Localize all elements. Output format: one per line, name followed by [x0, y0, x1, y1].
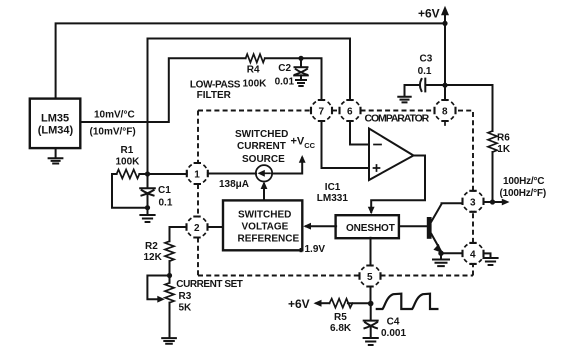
- svg-text:LM35: LM35: [41, 112, 69, 124]
- pin 8: [435, 100, 456, 121]
- svg-text:CURRENT SET: CURRENT SET: [176, 279, 243, 290]
- resistor R6: [488, 131, 497, 152]
- svg-text:1: 1: [194, 170, 200, 181]
- svg-text:CURRENT: CURRENT: [237, 141, 286, 152]
- ground for C1: [147, 208, 149, 215]
- svg-text:10mV/°C: 10mV/°C: [94, 110, 135, 121]
- svg-text:(100Hz/°F): (100Hz/°F): [500, 188, 546, 199]
- svg-text:12K: 12K: [144, 252, 163, 263]
- pin 5: [360, 266, 381, 287]
- ground for C3: [404, 85, 406, 96]
- wire pin2 to R2: [170, 227, 187, 241]
- +6V supply arrow top: [444, 10, 446, 23]
- transistor Q1: [427, 217, 432, 239]
- wire +6V rail to pin8 column: [444, 23, 446, 100]
- wire emitter to pin4: [441, 252, 463, 254]
- node output junction: [490, 199, 495, 204]
- svg-text:7: 7: [319, 107, 325, 118]
- op-amp comparator U1: [369, 129, 414, 181]
- wire oneshot to pin5: [370, 238, 372, 266]
- svg-text:R3: R3: [179, 291, 192, 302]
- svg-text:4: 4: [470, 249, 476, 260]
- svg-text:1.9V: 1.9V: [305, 244, 326, 255]
- ground for LM35: [55, 148, 57, 158]
- potentiometer R3: [165, 283, 174, 303]
- node C3 junction: [442, 83, 447, 88]
- svg-text:100K: 100K: [116, 157, 141, 168]
- wiper arm of R3: [147, 276, 169, 300]
- svg-text:ONESHOT: ONESHOT: [346, 223, 395, 234]
- pin 3: [463, 191, 484, 212]
- svg-text:8: 8: [442, 107, 448, 118]
- dashed IC boundary left edge: [197, 111, 199, 164]
- svg-text:R6: R6: [497, 132, 510, 143]
- wire pin1 to current source: [208, 173, 256, 175]
- dashed IC boundary bottom edge: [198, 275, 360, 277]
- wire node to pin1: [148, 173, 188, 175]
- svg-text:5: 5: [367, 272, 373, 283]
- ground for R3: [162, 338, 176, 344]
- wire pin3 to output arrow: [484, 201, 507, 203]
- ground for C2: [296, 80, 306, 86]
- oneshot box: [336, 215, 399, 238]
- wire +6V to R6: [445, 85, 493, 131]
- svg-text:0.001: 0.001: [381, 328, 406, 339]
- svg-text:138μA: 138μA: [219, 179, 249, 190]
- capacitor C3: [405, 84, 420, 86]
- wire comparator output to oneshot: [371, 156, 425, 213]
- switched voltage reference box U-ref: [223, 200, 302, 250]
- svg-text:R5: R5: [334, 312, 347, 323]
- current source I1: [256, 165, 272, 181]
- capacitor C2: [300, 58, 302, 66]
- svg-text:0.1: 0.1: [418, 66, 432, 77]
- svg-text:COMPARATOR: COMPARATOR: [365, 113, 430, 125]
- svg-text:LM331: LM331: [317, 193, 349, 204]
- node C2 junction: [298, 56, 303, 61]
- svg-text:SWITCHED: SWITCHED: [238, 210, 291, 221]
- wire top rail from LM35 to +6V: [56, 23, 445, 99]
- resistor R1: [112, 173, 117, 175]
- svg-text:(10mV/°F): (10mV/°F): [90, 127, 136, 138]
- svg-text:C3: C3: [420, 53, 433, 64]
- svg-text:5K: 5K: [179, 303, 193, 314]
- svg-text:6.8K: 6.8K: [330, 323, 352, 334]
- svg-text:0.1: 0.1: [159, 197, 173, 208]
- svg-text:+6V: +6V: [288, 297, 310, 311]
- node C1 bottom: [145, 205, 150, 210]
- wire current source to Vcc: [272, 158, 302, 174]
- wire pin6 to inverting input: [350, 121, 369, 145]
- capacitor C1: [147, 174, 149, 188]
- svg-text:R2: R2: [145, 241, 158, 252]
- svg-text:+6V: +6V: [418, 7, 440, 21]
- svg-text:100K: 100K: [243, 79, 268, 90]
- label 1.9V: [300, 248, 303, 252]
- ground for emitter: [440, 253, 442, 259]
- dashed IC boundary right edge: [472, 264, 474, 276]
- waveform at pin5: [376, 294, 439, 309]
- wire pin2 to voltage reference: [208, 226, 224, 228]
- svg-text:R4: R4: [247, 65, 260, 76]
- svg-text:VOLTAGE: VOLTAGE: [242, 222, 289, 233]
- wire pin5 to R5/C4 node: [370, 287, 372, 304]
- pin 4: [463, 243, 484, 264]
- pin 1: [187, 163, 208, 184]
- svg-text:LOW-PASS: LOW-PASS: [190, 80, 241, 91]
- dashed IC boundary top edge: [198, 110, 311, 112]
- svg-text:1K: 1K: [497, 144, 511, 155]
- svg-text:C2: C2: [278, 63, 291, 74]
- resistor R5: [348, 302, 368, 304]
- pin 2: [187, 217, 208, 238]
- wire pin6 feedback line: [148, 39, 351, 175]
- transistor Q1 base wire: [400, 225, 427, 227]
- wire reference to current source arrow: [263, 184, 265, 200]
- ground for pin4: [484, 253, 491, 257]
- node emitter junction: [438, 251, 443, 256]
- svg-text:C4: C4: [387, 316, 400, 327]
- pin 7: [311, 100, 332, 121]
- resistor R4: [246, 54, 265, 62]
- svg-text:3: 3: [470, 197, 476, 208]
- svg-text:SOURCE: SOURCE: [242, 154, 285, 165]
- svg-text:(LM34): (LM34): [38, 125, 74, 137]
- svg-text:SWITCHED: SWITCHED: [235, 129, 288, 140]
- node top rail junction: [442, 21, 447, 26]
- capacitor C4: [370, 304, 372, 321]
- svg-text:6: 6: [347, 107, 353, 118]
- node R5/C4 junction: [368, 301, 374, 307]
- ground for C4: [364, 338, 378, 345]
- wire R4 to pin7: [265, 58, 322, 100]
- resistor R2: [165, 241, 174, 261]
- svg-text:R1: R1: [121, 145, 134, 156]
- wire oneshot to reference arrow: [306, 225, 336, 227]
- svg-text:C1: C1: [158, 185, 171, 196]
- svg-text:0.01: 0.01: [275, 76, 295, 87]
- svg-text:IC1: IC1: [325, 182, 341, 193]
- wire pin7 to noninverting input: [322, 121, 370, 168]
- wire R3 to ground: [169, 303, 171, 338]
- svg-text:2: 2: [194, 223, 200, 234]
- wire R6 to output node: [492, 152, 494, 202]
- node R1/C1 top: [145, 171, 150, 176]
- svg-text:FILTER: FILTER: [197, 90, 232, 101]
- wire R1 left loop to ground node: [112, 174, 148, 208]
- node R2/R3 wiper: [167, 273, 172, 278]
- svg-text:REFERENCE: REFERENCE: [238, 234, 300, 245]
- pin 6: [340, 100, 361, 121]
- LM35 sensor box: [30, 99, 81, 149]
- svg-text:100Hz/°C: 100Hz/°C: [503, 176, 544, 187]
- wire R2 to R3: [169, 261, 171, 283]
- wire LM35 output 10mV: [80, 58, 245, 122]
